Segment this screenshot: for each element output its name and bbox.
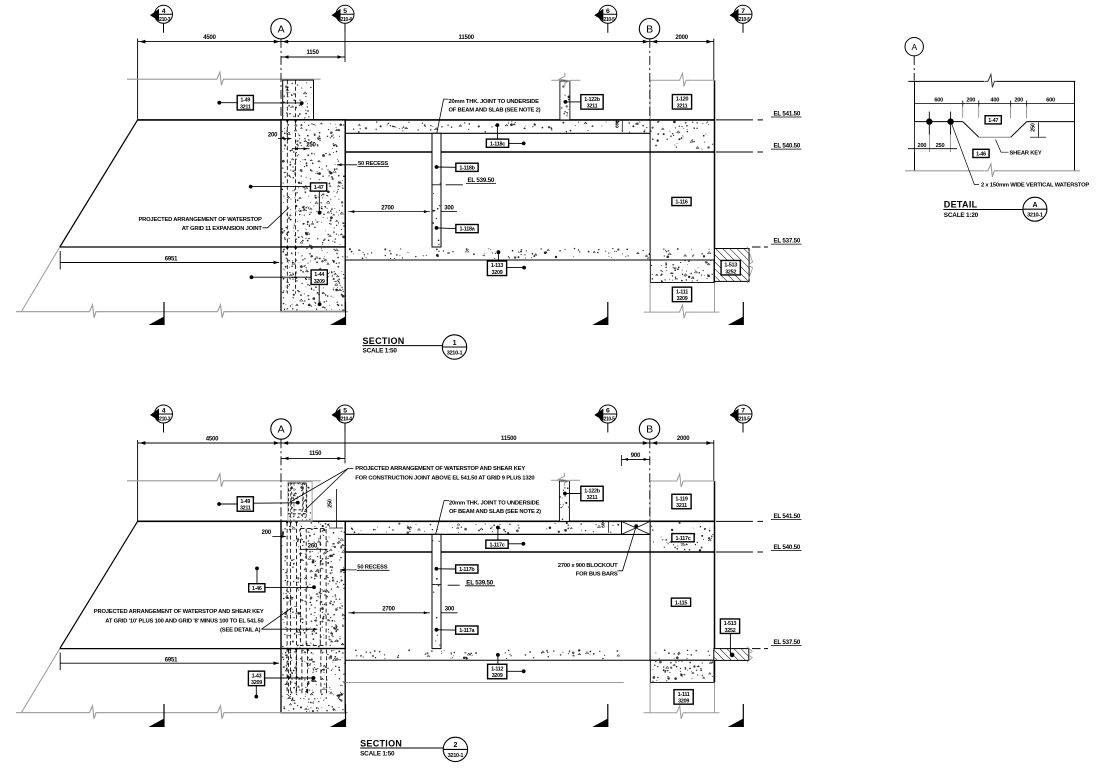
svg-text:EL 541.50: EL 541.50 — [774, 110, 801, 117]
svg-text:3210-1: 3210-1 — [448, 753, 464, 759]
svg-text:EL 540.50: EL 540.50 — [774, 544, 801, 551]
svg-text:3209: 3209 — [492, 673, 503, 679]
svg-text:400: 400 — [990, 98, 999, 104]
svg-text:6951: 6951 — [165, 657, 178, 663]
svg-text:2000: 2000 — [677, 436, 690, 442]
svg-text:200: 200 — [1014, 98, 1023, 104]
svg-text:1-43: 1-43 — [252, 673, 262, 679]
svg-text:4500: 4500 — [203, 35, 216, 41]
svg-text:50 RECESS: 50 RECESS — [358, 161, 388, 167]
svg-text:EL 537.50: EL 537.50 — [774, 639, 801, 646]
svg-text:B: B — [646, 424, 653, 436]
svg-text:260: 260 — [308, 544, 318, 550]
svg-text:6: 6 — [606, 8, 610, 15]
svg-text:A: A — [1032, 202, 1037, 209]
svg-text:1-117c: 1-117c — [676, 536, 691, 542]
svg-text:1-115: 1-115 — [675, 600, 687, 606]
svg-text:1-46: 1-46 — [252, 586, 262, 592]
svg-text:B: B — [646, 23, 653, 35]
svg-text:PROJECTED ARRANGEMENT OF WATER: PROJECTED ARRANGEMENT OF WATERSTOP AND S… — [94, 609, 264, 615]
svg-text:5: 5 — [343, 8, 347, 15]
svg-text:600: 600 — [1046, 98, 1055, 104]
svg-text:7: 7 — [741, 8, 745, 15]
svg-text:1-117b: 1-117b — [459, 567, 475, 573]
svg-text:AT GRID '10' PLUS 100 AND GRID: AT GRID '10' PLUS 100 AND GRID '8' MINUS… — [105, 618, 263, 624]
svg-text:EL 540.50: EL 540.50 — [774, 143, 801, 150]
svg-text:1-46: 1-46 — [976, 152, 986, 158]
svg-text:200: 200 — [918, 143, 927, 149]
svg-text:FOR BUS BARS: FOR BUS BARS — [576, 571, 618, 577]
svg-text:250: 250 — [1030, 123, 1036, 132]
svg-text:4: 4 — [162, 408, 166, 415]
svg-text:1-122b: 1-122b — [584, 488, 601, 494]
svg-text:1-47: 1-47 — [314, 185, 324, 191]
svg-text:3252: 3252 — [725, 628, 736, 634]
svg-text:1-117c: 1-117c — [490, 542, 505, 548]
svg-text:1-513: 1-513 — [724, 621, 737, 627]
svg-text:300: 300 — [445, 607, 455, 613]
svg-text:SHEAR KEY: SHEAR KEY — [1010, 150, 1042, 156]
svg-text:3209: 3209 — [678, 698, 689, 704]
svg-text:3209: 3209 — [492, 270, 503, 276]
svg-text:6951: 6951 — [165, 257, 178, 263]
svg-text:3211: 3211 — [240, 104, 251, 110]
svg-text:1-513: 1-513 — [724, 263, 737, 269]
svg-text:3211: 3211 — [676, 503, 687, 509]
svg-text:900: 900 — [631, 453, 641, 459]
svg-text:3210-1: 3210-1 — [447, 350, 463, 356]
svg-text:1-116: 1-116 — [675, 200, 687, 206]
svg-text:4: 4 — [162, 8, 166, 15]
svg-text:PROJECTED ARRANGEMENT OF WATER: PROJECTED ARRANGEMENT OF WATERSTOP AND S… — [355, 466, 525, 472]
svg-text:1-118b: 1-118b — [459, 165, 475, 171]
svg-text:2700 x 900 BLOCKOUT: 2700 x 900 BLOCKOUT — [558, 563, 618, 569]
svg-text:2700: 2700 — [382, 607, 395, 613]
svg-text:200: 200 — [966, 98, 975, 104]
svg-text:250: 250 — [327, 499, 333, 508]
svg-text:FOR CONSTRUCTION JOINT ABOVE E: FOR CONSTRUCTION JOINT ABOVE EL 541.50 A… — [355, 475, 534, 481]
svg-text:600: 600 — [934, 98, 943, 104]
svg-text:A: A — [911, 42, 917, 52]
svg-text:200: 200 — [262, 530, 272, 536]
svg-text:2700: 2700 — [381, 206, 394, 212]
svg-text:11500: 11500 — [459, 35, 475, 41]
svg-text:SECTION: SECTION — [363, 336, 405, 346]
svg-text:OF BEAM AND SLAB (SEE NOTE 2): OF BEAM AND SLAB (SEE NOTE 2) — [449, 509, 541, 515]
svg-text:20mm THK. JOINT TO UNDERSIDE: 20mm THK. JOINT TO UNDERSIDE — [449, 99, 540, 105]
svg-text:1-122b: 1-122b — [584, 97, 601, 103]
svg-text:200: 200 — [268, 132, 278, 138]
svg-text:1-49: 1-49 — [240, 499, 250, 505]
svg-text:600: 600 — [614, 120, 620, 128]
svg-text:20mm THK. JOINT TO UNDERSIDE: 20mm THK. JOINT TO UNDERSIDE — [449, 501, 540, 507]
svg-text:EL 541.50: EL 541.50 — [774, 513, 801, 520]
svg-text:1-44: 1-44 — [314, 272, 324, 278]
svg-text:3211: 3211 — [587, 103, 598, 109]
svg-text:1-119: 1-119 — [675, 496, 687, 502]
svg-text:EL 539.50: EL 539.50 — [466, 579, 493, 586]
svg-text:1: 1 — [453, 340, 457, 347]
svg-text:50 RECESS: 50 RECESS — [357, 565, 387, 571]
svg-text:1-117a: 1-117a — [459, 628, 475, 634]
svg-text:3211: 3211 — [240, 506, 251, 512]
svg-text:250: 250 — [306, 143, 316, 149]
svg-text:5: 5 — [343, 408, 347, 415]
svg-text:11500: 11500 — [501, 436, 517, 442]
svg-text:2 x 150mm WIDE VERTICAL WATERS: 2 x 150mm WIDE VERTICAL WATERSTOP — [981, 183, 1089, 189]
svg-text:2: 2 — [454, 742, 458, 749]
svg-text:6: 6 — [606, 408, 610, 415]
svg-text:3209: 3209 — [314, 279, 325, 285]
svg-text:3209: 3209 — [251, 680, 262, 686]
svg-text:3209: 3209 — [677, 296, 688, 302]
svg-text:1-49: 1-49 — [240, 98, 250, 104]
svg-text:1-120: 1-120 — [676, 97, 689, 103]
svg-text:A: A — [278, 424, 285, 436]
svg-text:AT GRID 11 EXPANSION JOINT: AT GRID 11 EXPANSION JOINT — [182, 226, 263, 232]
svg-text:SCALE 1:20: SCALE 1:20 — [944, 212, 979, 219]
svg-text:SCALE 1:50: SCALE 1:50 — [363, 348, 398, 355]
svg-text:1-111: 1-111 — [676, 289, 688, 295]
svg-text:1-111: 1-111 — [678, 692, 690, 698]
svg-text:EL 539.50: EL 539.50 — [468, 177, 495, 184]
svg-text:7: 7 — [741, 408, 745, 415]
svg-text:600: 600 — [601, 520, 607, 528]
svg-text:3211: 3211 — [587, 495, 598, 501]
svg-text:DETAIL: DETAIL — [944, 200, 978, 210]
svg-text:1-47: 1-47 — [988, 118, 998, 124]
svg-text:1-113: 1-113 — [491, 263, 503, 269]
svg-text:SECTION: SECTION — [360, 738, 402, 748]
svg-text:300: 300 — [444, 206, 454, 212]
svg-text:PROJECTED ARRANGEMENT OF WATER: PROJECTED ARRANGEMENT OF WATERSTOP — [138, 217, 262, 223]
svg-text:1-118c: 1-118c — [490, 141, 505, 147]
svg-text:OF BEAM AND SLAB (SEE NOTE 2): OF BEAM AND SLAB (SEE NOTE 2) — [449, 107, 541, 113]
svg-text:1150: 1150 — [309, 451, 322, 457]
svg-text:1150: 1150 — [306, 50, 319, 56]
svg-text:SCALE 1:50: SCALE 1:50 — [360, 750, 395, 757]
svg-text:1-112: 1-112 — [491, 666, 503, 672]
svg-text:3252: 3252 — [725, 269, 736, 275]
svg-text:A: A — [278, 23, 285, 35]
svg-text:4500: 4500 — [206, 436, 219, 442]
svg-text:1-118a: 1-118a — [460, 227, 476, 233]
svg-text:EL 537.50: EL 537.50 — [774, 238, 801, 245]
svg-text:(SEE DETAIL A): (SEE DETAIL A) — [220, 628, 261, 634]
svg-text:250: 250 — [936, 143, 945, 149]
svg-text:2000: 2000 — [675, 35, 688, 41]
svg-text:3210-1: 3210-1 — [1027, 213, 1043, 219]
svg-text:3211: 3211 — [677, 103, 688, 109]
